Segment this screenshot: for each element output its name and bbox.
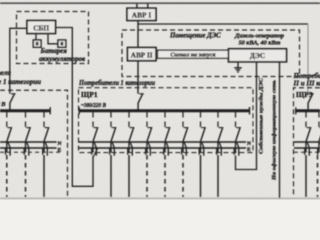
- wire feeders into ABP I: [137, 4, 148, 9]
- hook below-E verticals x183.0: [182, 148, 187, 156]
- wire feeder stub x200.5: [200, 112, 202, 127]
- hook N-E connector x93.0: [94, 142, 96, 147]
- wire ДЭС output to bottom: [279, 62, 281, 198]
- hook below-E verticals x218.0: [217, 148, 222, 156]
- hook N-E connector x6.8: [8, 142, 10, 147]
- wire bottom edge line: [0, 197, 320, 199]
- wire СБП to battery 1: [35, 34, 37, 41]
- bus ЩР3: [295, 109, 320, 112]
- dashed box special group panel: [0, 90, 68, 197]
- wire СБП to battery 2: [48, 34, 58, 44]
- hook N-E connector x129.0: [130, 142, 132, 147]
- hook N-E connector x218.0: [219, 142, 221, 147]
- wire outgoing line x44.0: [43, 155, 45, 197]
- wire feeder drop x306.0: [305, 142, 307, 153]
- N bar left panel: [0, 141, 57, 143]
- hook N-E connector x235.5: [237, 142, 239, 147]
- hook N-E connector x165.0: [166, 142, 168, 147]
- dashed box СБП: [17, 12, 89, 64]
- wire outgoing line x317.5: [317, 155, 319, 197]
- wire feeder stub x235.5: [235, 112, 237, 127]
- breaker blade x306.0: [307, 127, 312, 129]
- feeders left panel: [0, 112, 60, 197]
- dashed line through hooks left panel: [0, 151, 60, 153]
- battery 1: [33, 40, 41, 47]
- N bar ЩР1: [79, 141, 247, 143]
- wire feeder drop x44.0: [43, 142, 45, 153]
- hook below-E verticals x6.8: [6, 148, 11, 156]
- breaker incoming ЩР3: [308, 94, 314, 110]
- breaker blade x218.0: [219, 127, 224, 129]
- breaker blade x129.0: [130, 127, 135, 129]
- wire feeder drop x93.0: [92, 142, 94, 153]
- wire outgoing line x6.8: [6, 155, 8, 197]
- wire АВР II to ЩР1: [137, 61, 139, 94]
- hook below-E verticals x147.0: [146, 148, 151, 156]
- dashed box ЩР3: [294, 88, 320, 197]
- wire АВР I to ЩР3 feed: [138, 23, 308, 25]
- hook below-E verticals x235.5: [234, 148, 239, 156]
- breaker blade x44.0: [45, 127, 50, 129]
- wire outgoing line x165.0: [164, 155, 166, 197]
- hook below-E verticals x25.5: [24, 148, 29, 156]
- feeders ЩР1: [92, 112, 241, 197]
- hook N-E connector x44.0: [45, 142, 47, 147]
- wire feeder drop x218.0: [217, 142, 219, 153]
- wire outgoing line x129.0: [128, 155, 130, 197]
- wire feeder drop x6.8: [6, 142, 8, 153]
- hook N-E connector x200.5: [202, 142, 204, 147]
- hook below-E verticals x306.0: [305, 148, 310, 156]
- block ДЭС: [229, 49, 287, 62]
- wire feeder drop x165.0: [164, 142, 166, 153]
- wire feeder stub x306.0: [305, 112, 307, 127]
- wire feeder stub x111.0: [110, 112, 112, 127]
- wire feeder drop x25.5: [25, 142, 27, 153]
- hook N-E connector x25.5: [27, 142, 29, 147]
- N bar ЩР3: [294, 141, 320, 143]
- wire feeder stub x93.0: [92, 112, 94, 127]
- hook below-E verticals x111.0: [110, 148, 115, 156]
- wire feeder drop x129.0: [128, 142, 130, 153]
- wire ДЭС own needs drop: [236, 62, 257, 170]
- wire feeder drop x200.5: [200, 142, 202, 153]
- bus left panel: [0, 109, 50, 112]
- wire feeder drop x147.0: [146, 142, 148, 153]
- breaker incoming left panel: [10, 94, 16, 110]
- wire outgoing line x147.0: [146, 155, 148, 197]
- wire feeder stub x183.0: [182, 112, 184, 127]
- breaker blade x235.5: [236, 127, 241, 129]
- bus ЩР1: [79, 109, 251, 112]
- hook tap into U leg: [93, 149, 97, 158]
- hook below-E verticals x200.5: [199, 148, 204, 156]
- E bar left panel: [0, 147, 57, 149]
- wire top supply line: [0, 2, 320, 4]
- block СБП: [27, 21, 56, 34]
- breaker blade x111.0: [112, 127, 117, 129]
- wire feeder stub x147.0: [146, 112, 148, 127]
- hook N-E connector x306.0: [307, 142, 309, 147]
- wire СБП input from ЩР1 (U-turn): [56, 28, 94, 187]
- breaker incoming ЩР1: [138, 94, 144, 110]
- wire outgoing line x218.0: [217, 155, 219, 197]
- wire outgoing line x306.0: [305, 155, 307, 197]
- wire СБП output to special group panel: [10, 28, 27, 94]
- wire feeder drop x319.0: [318, 142, 320, 153]
- hook N-E connector x111.0: [112, 142, 114, 147]
- dashed line through hooks ЩР3: [294, 151, 320, 153]
- wire feeder stub x6.8: [6, 112, 8, 127]
- wire outgoing line x183.0: [182, 155, 184, 197]
- E bar ЩР1: [79, 147, 247, 149]
- breaker blade x93.0: [94, 127, 99, 129]
- wire feeder stub x25.5: [25, 112, 27, 127]
- E bar ЩР3: [294, 147, 320, 149]
- wire feeder stub x218.0: [217, 112, 219, 127]
- wire feeder stub x44.0: [43, 112, 45, 127]
- hook N-E connector x183.0: [184, 142, 186, 147]
- hook N-E connector x147.0: [148, 142, 150, 147]
- feeders ЩР3: [294, 112, 320, 197]
- hook below-E verticals x165.0: [164, 148, 169, 156]
- dashed box Помещение ДЭС: [122, 30, 300, 77]
- hook below-E verticals x319.0: [318, 148, 320, 156]
- breaker blade x183.0: [184, 127, 189, 129]
- wire outgoing line x111.0: [110, 155, 112, 197]
- block АВР I: [127, 8, 156, 20]
- scan noise overlay: [0, 0, 1, 1]
- wire outgoing line x200.5: [200, 155, 202, 197]
- breaker blade x200.5: [201, 127, 206, 129]
- block Сигнал на запуск: [158, 50, 229, 58]
- breaker blade x25.5: [26, 127, 31, 129]
- hook below-E verticals x93.0: [92, 148, 97, 156]
- wire outgoing line x25.5: [25, 155, 27, 197]
- wire feeder stub x165.0: [164, 112, 166, 127]
- breaker blade x147.0: [148, 127, 153, 129]
- wire feeder drop x111.0: [110, 142, 112, 153]
- ground: [234, 62, 241, 72]
- battery 2: [58, 40, 66, 47]
- breaker blade x165.0: [166, 127, 171, 129]
- wire АВР I to АВР II: [137, 21, 139, 48]
- wire feeder drop x235.5: [235, 142, 237, 153]
- breaker blade x6.8: [7, 127, 12, 129]
- hook below-E verticals x44.0: [43, 148, 48, 156]
- dashed box ЩР1: [79, 88, 254, 153]
- wire feeder stub x129.0: [128, 112, 130, 127]
- hook below-E verticals x129.0: [128, 148, 133, 156]
- wire feeder drop x183.0: [182, 142, 184, 153]
- wire feeder stub x319.0: [318, 112, 320, 127]
- block АВР II: [128, 48, 157, 61]
